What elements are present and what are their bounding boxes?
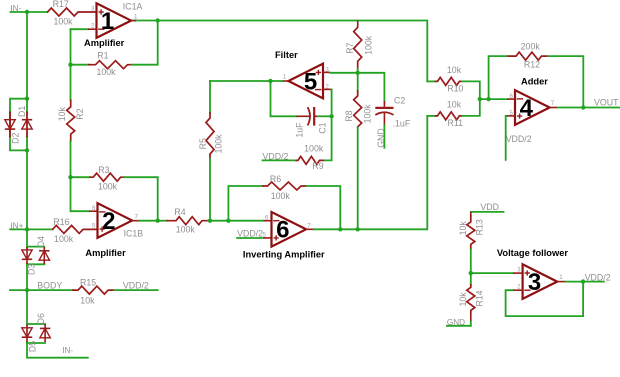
- svg-text:IC1B: IC1B: [124, 229, 144, 239]
- svg-text:100k: 100k: [54, 234, 74, 244]
- svg-text:VOUT: VOUT: [594, 98, 619, 108]
- node IN- junction: [25, 10, 29, 14]
- svg-text:6: 6: [92, 205, 96, 212]
- svg-text:VDD/2: VDD/2: [585, 273, 611, 283]
- svg-text:D1: D1: [17, 106, 27, 117]
- svg-text:R15: R15: [80, 278, 96, 288]
- svg-text:3: 3: [517, 267, 521, 274]
- svg-text:100k: 100k: [53, 16, 73, 26]
- svg-text:C1: C1: [318, 122, 328, 133]
- svg-text:D5: D5: [27, 341, 37, 352]
- svg-text:6: 6: [510, 93, 514, 100]
- svg-text:R4: R4: [174, 207, 185, 217]
- resistor R8: [357, 73, 359, 91]
- wire node to amp6 inverting input: [228, 220, 263, 222]
- svg-text:100k: 100k: [304, 143, 324, 153]
- svg-text:7: 7: [135, 213, 139, 220]
- diode D2: [9, 111, 11, 137]
- svg-text:R17: R17: [53, 0, 69, 9]
- wire IN+ stub: [10, 228, 27, 230]
- node R2/R3 junction: [68, 175, 72, 179]
- node C1 right junction: [329, 114, 333, 118]
- resistor R15: [72, 286, 114, 294]
- svg-text:5: 5: [304, 68, 317, 95]
- svg-text:1: 1: [101, 8, 114, 35]
- node adder input junction 1: [478, 97, 482, 101]
- resistor R6 feedback: [228, 186, 263, 221]
- svg-text:100k: 100k: [98, 182, 118, 192]
- node amp1 output junction: [156, 18, 160, 22]
- wire adder inverting input: [480, 98, 508, 100]
- op-amp U4 adder: [515, 90, 550, 125]
- svg-text:D4: D4: [36, 236, 46, 247]
- capacitor C1: [271, 81, 298, 116]
- svg-text:R14: R14: [474, 290, 484, 306]
- svg-text:C2: C2: [394, 96, 405, 106]
- resistor R7: [357, 21, 359, 27]
- wire R17 lead: [27, 11, 48, 13]
- wire amp2 output: [132, 220, 140, 222]
- node R13/R14 junction: [469, 271, 473, 275]
- svg-text:1: 1: [559, 274, 563, 281]
- resistor R11: [427, 115, 435, 117]
- svg-text:BODY: BODY: [37, 281, 62, 291]
- wire VDD stub: [471, 211, 504, 213]
- wire left column mid: [26, 150, 28, 229]
- node BODY junction: [25, 288, 29, 292]
- svg-text:D6: D6: [36, 313, 46, 324]
- wire node to node: [210, 220, 228, 222]
- svg-text:200k: 200k: [521, 42, 541, 52]
- diode D5: [26, 324, 28, 342]
- svg-text:1: 1: [283, 74, 287, 81]
- diode pair D5/D6 loop wires: [26, 290, 28, 325]
- svg-text:R5: R5: [198, 138, 208, 149]
- svg-text:6: 6: [276, 217, 289, 244]
- node R1/R2 junction: [68, 62, 72, 66]
- node R12 junction: [486, 97, 490, 101]
- node VOUT junction: [581, 105, 585, 109]
- svg-text:R9: R9: [312, 161, 323, 171]
- diode D1: [26, 99, 28, 113]
- resistor R16: [27, 228, 53, 230]
- svg-text:R7: R7: [345, 42, 355, 53]
- wire amp1 output: [133, 20, 158, 22]
- svg-text:R10: R10: [447, 83, 463, 93]
- svg-text:10k: 10k: [447, 100, 462, 110]
- resistor R13: [470, 212, 472, 216]
- resistor R12 feedback: [489, 56, 508, 99]
- svg-text:100k: 100k: [271, 191, 291, 201]
- svg-text:4: 4: [520, 95, 534, 122]
- wire amp1 inverting input: [71, 28, 89, 30]
- svg-text:Filter: Filter: [275, 50, 298, 60]
- wire adder output / VOUT: [550, 107, 558, 109]
- op-amp U2 IC1B: [98, 203, 133, 238]
- wire amp3 feedback loop: [506, 282, 583, 317]
- svg-text:10k: 10k: [458, 221, 468, 236]
- resistor R10: [427, 80, 435, 82]
- svg-text:5: 5: [263, 231, 267, 238]
- wire IN- vertical left column upper: [26, 12, 28, 99]
- diode D4: [43, 247, 45, 264]
- node R6 output junction: [338, 227, 342, 231]
- svg-text:D2: D2: [11, 133, 21, 144]
- resistor R3: [71, 176, 91, 178]
- svg-text:10k: 10k: [57, 107, 67, 122]
- wire R13/R14 node to amp3 + input: [471, 272, 513, 274]
- svg-text:GND: GND: [376, 128, 386, 148]
- svg-text:6: 6: [265, 214, 269, 221]
- wire node to C2: [358, 73, 385, 102]
- resistor R17: [47, 8, 97, 16]
- svg-text:IC1A: IC1A: [123, 2, 143, 12]
- svg-text:R13: R13: [474, 219, 484, 235]
- svg-text:VDD/2: VDD/2: [237, 228, 263, 238]
- svg-text:Inverting Amplifier: Inverting Amplifier: [243, 250, 325, 260]
- node D1 bottom junction: [25, 148, 29, 152]
- resistor R14: [470, 273, 472, 284]
- svg-text:7: 7: [551, 100, 555, 107]
- svg-text:100k: 100k: [363, 35, 373, 55]
- diode pair D3/D4 loop wires: [26, 229, 28, 247]
- svg-text:5: 5: [92, 223, 96, 230]
- svg-text:Amplifier: Amplifier: [84, 38, 125, 48]
- svg-text:R1: R1: [97, 50, 108, 60]
- node R4/R5 junction: [208, 219, 212, 223]
- svg-text:1: 1: [134, 14, 138, 21]
- svg-text:D3: D3: [27, 264, 37, 275]
- diode pair top loop wires: [10, 99, 27, 151]
- svg-text:IN-: IN-: [62, 346, 73, 355]
- svg-text:Amplifier: Amplifier: [85, 248, 126, 258]
- svg-text:R16: R16: [53, 217, 69, 227]
- svg-text:10k: 10k: [80, 296, 95, 306]
- svg-text:R12: R12: [524, 59, 540, 69]
- node R8 output junction: [356, 227, 360, 231]
- svg-text:100k: 100k: [362, 104, 372, 124]
- resistor R1: [71, 64, 90, 66]
- svg-text:.1uF: .1uF: [393, 118, 411, 128]
- node amp3 output junction: [581, 279, 585, 283]
- op-amp U5 filter (mirrored): [288, 64, 323, 99]
- svg-text:VDD: VDD: [480, 202, 499, 212]
- op-amp U1 IC1A: [97, 3, 132, 38]
- svg-text:100k: 100k: [176, 225, 196, 235]
- node C1 top junction: [268, 79, 272, 83]
- svg-text:R6: R6: [270, 174, 281, 184]
- resistor R2: [70, 65, 72, 100]
- svg-text:7: 7: [307, 222, 311, 229]
- svg-text:IN-: IN-: [10, 4, 21, 13]
- diode D3: [26, 247, 28, 264]
- node R7/R8 junction: [356, 71, 360, 75]
- svg-text:3: 3: [91, 5, 95, 12]
- svg-text:VDD/2: VDD/2: [506, 134, 532, 144]
- svg-text:Voltage follower: Voltage follower: [497, 248, 568, 258]
- node amp2 output junction: [156, 219, 160, 223]
- wire amp6 output: [306, 228, 314, 230]
- svg-text:10k: 10k: [458, 292, 468, 307]
- svg-text:2: 2: [102, 208, 115, 235]
- svg-text:R2: R2: [75, 108, 85, 119]
- wire R3 node to amp2 inverting input: [71, 177, 90, 211]
- op-amp U3 voltage follower: [523, 264, 558, 299]
- node D1 top junction: [25, 97, 29, 101]
- svg-text:VDD/2: VDD/2: [123, 281, 149, 291]
- wire amp5 output: [282, 80, 289, 82]
- wire IN- top horizontal: [10, 11, 27, 13]
- wire adder + input stub: [506, 116, 507, 160]
- wire top bus to R10 column: [158, 21, 428, 82]
- svg-text:R8: R8: [344, 110, 354, 121]
- svg-text:R11: R11: [448, 118, 464, 128]
- svg-text:R3: R3: [98, 165, 109, 175]
- svg-text:3: 3: [528, 269, 541, 296]
- resistor R5: [209, 81, 211, 113]
- diode D6: [44, 324, 46, 342]
- wire VDD/2 stub to amp6: [237, 237, 263, 239]
- svg-text:100k: 100k: [96, 67, 116, 77]
- svg-text:1uF: 1uF: [294, 122, 304, 138]
- svg-text:Adder: Adder: [521, 76, 548, 86]
- svg-text:100k: 100k: [214, 134, 224, 154]
- resistor R4: [158, 220, 167, 222]
- svg-text:10k: 10k: [447, 65, 462, 75]
- wire feedback left vertical: [70, 29, 72, 64]
- wire amp3 output: [557, 281, 566, 283]
- wire amp5 - input down: [323, 88, 332, 90]
- wire GND stub: [447, 325, 471, 327]
- op-amp U6 inverting amplifier: [272, 212, 307, 247]
- capacitor C2: [383, 101, 385, 107]
- wire BODY row: [10, 289, 73, 291]
- wire amp5 + input to R7/R8 node: [323, 71, 331, 73]
- node R6 junction: [226, 219, 230, 223]
- node IN+ junction: [25, 227, 29, 231]
